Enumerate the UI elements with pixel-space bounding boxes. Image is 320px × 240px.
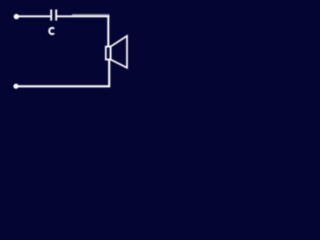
speaker LS1 [106, 36, 127, 68]
wire: right vertical lower + bottom run to terminal [17, 59, 109, 86]
wire: top terminal to capacitor [17, 15, 50, 17]
capacitor C [51, 10, 56, 21]
terminal T1 (top input) [14, 14, 19, 19]
wire: capacitor to top-right corner [57, 15, 109, 17]
terminal T2 (bottom input) [13, 84, 18, 89]
wire: right vertical upper (corner down to speaker) [107, 15, 109, 47]
wire: ghost double-draw above right half of top wire [72, 14, 109, 16]
label C [49, 28, 54, 34]
background [0, 0, 150, 113]
